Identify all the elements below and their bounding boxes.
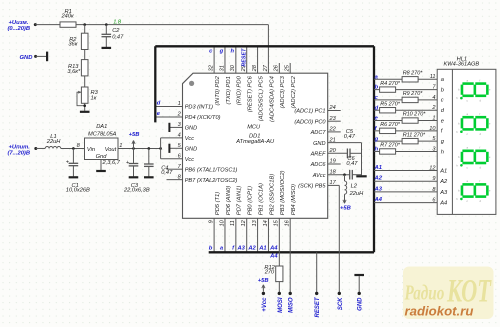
svg-text:2,3,6,7: 2,3,6,7 [102,160,121,166]
MCU pin 5 GND [169,143,197,153]
svg-text:A2: A2 [247,246,256,252]
display pin label g [441,139,445,145]
capacitor C3 electrolytic [123,148,150,193]
svg-text:c: c [441,98,444,104]
capacitor C6 [328,156,362,179]
svg-text:12: 12 [429,165,436,171]
svg-text:GND: GND [313,141,325,147]
svg-text:A3: A3 [439,190,448,196]
wire Vcc bracket pins 4 6 [161,138,183,159]
MCU pin 30 (RXD) PD0 [230,46,243,105]
svg-text:Vcc: Vcc [185,157,195,163]
capacitor C1 electrolytic [66,148,90,193]
svg-text:+: + [126,160,129,166]
MCU pin 27 (ADC4/SDA) PC4 [263,64,276,122]
svg-text:1к: 1к [91,95,97,101]
MCU pin 7 PB6 (XTAL1/TOSC1) [167,164,238,174]
svg-text:22uH: 22uH [349,191,364,197]
svg-text:270: 270 [264,269,275,275]
svg-text:0,47: 0,47 [346,161,358,167]
display digit 2 seven-segment [456,112,491,136]
resistor R2 [68,33,88,49]
svg-text:PB2 (SS/OC1B): PB2 (SS/OC1B) [269,174,275,216]
capacitor C2 [102,25,125,48]
display pin label A4 [439,201,447,207]
MCU pin 4 Vcc [178,133,195,143]
display digit 3 seven-segment [456,146,491,170]
MCU pin 14 PB2 (SS/OC1B) [263,174,276,253]
MCU pin 24 (ADC1) PC1 [294,105,340,115]
display pin label b [441,87,444,93]
svg-text:h: h [375,147,379,153]
display digit 1 seven-segment [456,78,491,102]
MCU pin 3 GND [169,122,197,132]
svg-text:(ADC5/SCL) PC5: (ADC5/SCL) PC5 [258,75,264,121]
svg-text:1: 1 [432,115,435,121]
svg-text:ADC6: ADC6 [310,162,327,168]
net A2 wire to display [374,176,438,183]
svg-text:MISO: MISO [289,297,295,313]
display HL1 KW4-361AGB box [437,56,496,214]
MCU pin 12 PB0 (ICP1) [241,186,254,252]
svg-text:(RXD) PD0: (RXD) PD0 [237,75,243,105]
svg-text:PB1 (OC1A): PB1 (OC1A) [258,183,264,215]
MCU pin 2 PD4 (XCK/T0) [155,112,220,122]
svg-text:g: g [374,136,379,142]
resistor R3 trimmer [77,87,99,106]
svg-text:(0...20)В: (0...20)В [8,26,31,32]
MCU pin 29 (RESET) PC6 [241,46,254,112]
MCU pin 8 PB7 (XTAL2/TOSC2) [167,174,238,184]
svg-text:240к: 240к [61,13,74,19]
svg-text:R10 270*: R10 270* [403,112,427,118]
svg-text:(ADC0) PC0: (ADC0) PC0 [294,119,326,125]
net a wire with resistor R8 [374,71,437,83]
ground C3 [129,176,139,178]
wire pin17 SCK [328,185,340,293]
svg-text:PB0 (ICP1): PB0 (ICP1) [248,186,254,215]
svg-text:Vin: Vin [87,147,95,153]
wire R1 to node 1.8 [76,24,268,26]
display pin label A2 [439,179,448,185]
svg-text:1.8: 1.8 [113,19,122,25]
svg-text:PB7 (XTAL2/TOSC2): PB7 (XTAL2/TOSC2) [185,178,238,184]
wire R2 top [84,25,86,34]
svg-text:RESET: RESET [241,48,247,67]
terminal +Vcc [262,292,268,312]
net h wire with resistor R7 [374,143,437,155]
svg-text:C2: C2 [112,28,120,34]
net f label bottom [232,246,235,252]
terminal RESET [315,292,321,318]
ground analog [356,175,366,177]
svg-text:PD5 (T1): PD5 (T1) [215,192,221,216]
net RESET label top [241,48,247,67]
svg-text:A4: A4 [269,254,278,260]
MCU pin 9 PD5 (T1) [209,192,222,253]
junction R2 tap [83,23,86,26]
svg-text:A1: A1 [374,165,382,171]
svg-text:PB3 (MOSI/OC2): PB3 (MOSI/OC2) [280,170,286,215]
svg-text:+5В: +5В [340,206,351,212]
net A3 wire to display [374,186,438,193]
svg-text:R8 270*: R8 270* [403,71,424,77]
svg-text:A3: A3 [236,246,245,252]
ground divider [80,111,90,113]
svg-text:MCU: MCU [247,125,261,131]
inductor L2 [345,175,365,197]
svg-text:R9 270*: R9 270* [403,91,424,97]
svg-text:+5В: +5В [258,278,269,284]
svg-text:4: 4 [432,95,435,101]
capacitor C5 [328,129,362,158]
power +5V arrow Vcc pad [258,278,269,291]
display pin label d [441,108,445,114]
display pin label h [441,149,444,155]
net A4 label bottom [269,246,278,252]
terminal GND [358,292,364,311]
display pin label e [441,118,444,124]
wire DA1 gnd [100,160,102,171]
node GND input label [20,55,34,61]
svg-text:MC78L05A: MC78L05A [88,131,117,137]
display pin label f [441,129,444,135]
net a label bottom [220,246,224,252]
wire pin21 GND to ground [328,143,362,176]
MCU pin 16 PB4 (MISO) [285,184,298,227]
net A4 wire to display [374,197,438,204]
svg-text:RESET: RESET [315,296,321,317]
svg-text:(INT0) PD2: (INT0) PD2 [215,75,221,105]
net A2 label bottom [247,246,256,252]
svg-text:9: 9 [432,176,435,182]
wire pin16 MISO [289,218,291,293]
svg-text:10: 10 [429,126,436,132]
svg-text:R5 270*: R5 270* [380,101,401,107]
svg-text:b: b [209,246,213,252]
svg-text:ATmega8A-AU: ATmega8A-AU [235,139,275,145]
svg-text:L2: L2 [351,183,358,189]
svg-text:(RESET) PC6: (RESET) PC6 [248,75,254,112]
svg-text:3,6к*: 3,6к* [67,69,81,75]
svg-text:(ADC1) PC1: (ADC1) PC1 [294,109,325,115]
svg-text:b: b [441,87,444,93]
svg-text:A2: A2 [439,179,448,185]
MCU pin 6 Vcc [178,153,195,163]
node +Upit input label [8,144,31,156]
net c label top [209,48,213,54]
svg-text:(7...20)В: (7...20)В [8,150,31,156]
svg-text:R6 270*: R6 270* [380,122,401,128]
svg-text:ADC7: ADC7 [310,130,327,136]
wire node to MCU pin 27 ADC4 [267,25,269,74]
svg-text:0,47: 0,47 [161,170,173,176]
bus bottom [209,251,374,253]
net h label top [230,48,234,54]
svg-text:A2: A2 [374,176,383,182]
node 1.8 label [113,19,122,25]
terminal SCK [338,292,344,310]
svg-text:A4: A4 [269,246,278,252]
svg-text:A4: A4 [439,201,447,207]
display pin label A1 [439,168,447,174]
net b wire with resistor R4 [374,81,437,93]
svg-text:(TXD) PD1: (TXD) PD1 [226,76,232,104]
MCU pin 23 (ADC0) PC0 [294,116,340,126]
MCU pin 18 AVcc [312,169,337,179]
svg-text:10,0х26В: 10,0х26В [66,187,90,193]
capacitor C4 [144,148,173,176]
MCU pin 20 AREF [310,148,337,158]
svg-text:radiokot.ru: radiokot.ru [405,304,474,319]
net A3 label bottom [236,246,245,252]
wire pin15 MOSI to R12 [278,218,280,266]
wire R12 to MOSI pad [278,282,280,294]
MCU pin 32 (INT0) PD2 [209,46,222,105]
svg-text:(SCK) PB5: (SCK) PB5 [298,184,326,190]
svg-text:0,47: 0,47 [344,134,356,140]
MCU pin 10 PD6 (AIN0) [219,186,232,253]
MCU pin 11 PD7 (AIN1) [230,186,243,253]
svg-text:b: b [375,85,379,91]
ground DA1 [96,170,106,172]
svg-text:22uH: 22uH [46,139,61,145]
svg-text:PB6 (XTAL1/TOSC1): PB6 (XTAL1/TOSC1) [185,167,238,173]
voltage regulator DA1 MC78L05A [77,124,123,166]
svg-text:GND: GND [20,55,34,61]
MCU pin 28 (ADC5/SCL) PC5 [252,46,265,121]
bus left vertical [154,46,156,122]
wire R13 to R3 [84,76,86,87]
net A1 label bottom [258,246,266,252]
MCU pin 19 ADC6 [310,159,341,169]
display pin label A3 [439,190,448,196]
net b label bottom [209,246,213,252]
MCU pin 17 (SCK) PB5 [298,180,336,190]
ground C4 [144,176,154,178]
MCU pin 26 (ADC3) PC3 [274,63,287,108]
svg-text:A1: A1 [439,168,447,174]
net g wire with resistor R11 [374,132,438,144]
svg-text:g: g [219,48,224,54]
terminal MISO [289,292,295,313]
net f wire with resistor R6 [374,122,437,133]
svg-text:(ADC4/SDA) PC4: (ADC4/SDA) PC4 [269,76,275,122]
junction C2 tap [105,23,108,26]
svg-text:+5В: +5В [129,132,140,138]
wire L1 to DA1 [61,147,85,150]
svg-text:DA1: DA1 [96,124,107,130]
power +5V arrow DA1 [129,132,140,148]
svg-text:4: 4 [178,133,181,139]
net A4 label below bus [269,254,278,260]
terminal GND [34,55,37,58]
svg-text:11: 11 [430,74,436,80]
ground ISP [354,275,364,293]
bus right vertical [373,46,375,252]
MCU DD1 ATmega8A-AU body [183,73,328,218]
svg-text:PB4 (MISO): PB4 (MISO) [291,184,297,215]
terminal MOSI [278,292,284,313]
net e wire with resistor R10 [374,112,437,124]
net d label left [157,100,161,106]
svg-text:GND: GND [185,126,197,132]
svg-text:0,47: 0,47 [112,35,124,41]
svg-text:d: d [375,105,379,111]
svg-text:KW4-361AGB: KW4-361AGB [444,61,480,67]
MCU pin 22 ADC7 [310,127,341,137]
MCU pin 21 GND [313,137,336,147]
svg-text:Радио: Радио [404,281,445,304]
svg-text:AVcc: AVcc [312,173,326,179]
svg-text:h: h [441,149,444,155]
net A1 wire to display [374,165,438,172]
watermark radiokot [403,267,494,320]
svg-text:R11 270*: R11 270* [403,132,426,138]
terminal +Uizm [34,23,37,26]
svg-text:A4: A4 [374,197,383,203]
resistor R1 [60,9,76,27]
terminal +Upit [34,147,37,150]
svg-text:Vcc: Vcc [185,136,195,142]
svg-text:GND: GND [185,147,197,153]
svg-text:SCK: SCK [338,297,344,310]
svg-text:PD7 (AIN1): PD7 (AIN1) [237,186,243,216]
wire GND input [36,55,47,57]
bus top [155,45,374,47]
display pin label c [441,98,444,104]
svg-text:+: + [66,160,69,166]
ground C2 [102,47,112,49]
MCU pin 1 PD3 (INT1) [155,101,213,111]
MCU pin 15 PB3 (MOSI/OC2) [274,170,287,226]
wire RESET to bus [316,252,318,293]
ground input bar [46,52,48,62]
svg-text:22,0х6,3В: 22,0х6,3В [123,188,150,194]
resistor R12 [264,265,283,282]
inductor L1 [45,134,61,148]
svg-text:a: a [441,77,444,83]
svg-text:R7 270*: R7 270* [380,143,401,149]
display digit 4 seven-segment [456,179,491,203]
svg-text:MOSI: MOSI [278,297,284,313]
svg-text:(ADC3) PC3: (ADC3) PC3 [280,75,286,108]
resistor R13 [67,60,88,76]
display pin label a [441,77,444,83]
wire input to L1 [36,147,45,149]
wire R3 to ground [83,103,86,111]
svg-text:Vout: Vout [105,147,117,153]
svg-text:A3: A3 [374,186,383,192]
net d wire with resistor R5 [374,101,437,113]
MCU pin 13 PB1 (OC1A) [252,183,265,252]
MCU pin 25 (ADC2) PC2 [285,63,298,108]
svg-text:PD3 (INT1): PD3 (INT1) [185,105,213,111]
svg-text:(ADC2) PC2: (ADC2) PC2 [291,75,297,108]
svg-text:GND: GND [358,297,364,311]
svg-text:e: e [441,118,444,124]
node +Uizm input label [8,20,31,32]
wire R2 to R13 [84,50,86,60]
net e label left [157,111,161,117]
ground C1 [69,176,79,178]
svg-text:R4 270*: R4 270* [380,81,401,87]
svg-text:d: d [157,100,161,106]
net g label top [219,48,224,54]
MCU pin 31 (TXD) PD1 [219,46,232,104]
wire DA1 out +5V rail [118,147,162,150]
svg-text:PD4 (XCK/T0): PD4 (XCK/T0) [185,115,221,121]
svg-text:h: h [230,48,234,54]
svg-text:AREF: AREF [310,152,327,158]
svg-text:27: 27 [263,64,269,72]
power +5V arrow L2 [340,194,351,211]
net c wire with resistor R9 [374,91,437,103]
svg-text:+Vcc: +Vcc [262,297,268,312]
wire input to R1 [35,24,60,26]
svg-text:36к: 36к [68,42,77,48]
svg-text:A1: A1 [258,246,266,252]
svg-text:PD6 (AIN0): PD6 (AIN0) [226,186,232,216]
